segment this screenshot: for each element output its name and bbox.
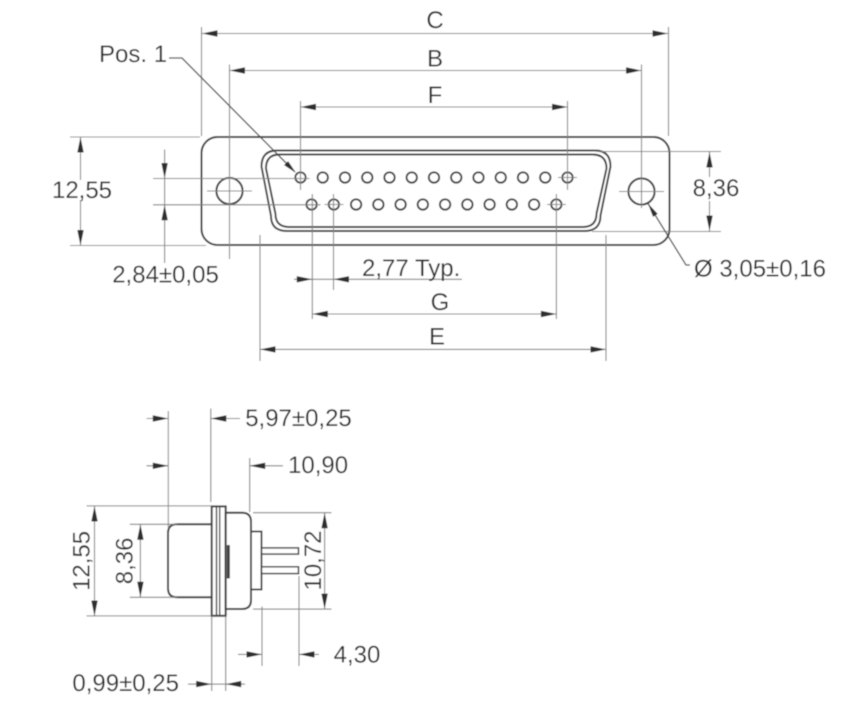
dimension 0,99 line between extensions bbox=[212, 683, 226, 685]
pin 21 bbox=[462, 199, 472, 209]
dimension 2,77 extension line right (pin 15) bbox=[333, 194, 335, 290]
pin 5 bbox=[384, 172, 394, 182]
dimension 2,84 arrow up bbox=[161, 205, 167, 221]
dimension 2,77 arrow pointing right bbox=[297, 276, 313, 282]
D-shell outer contour bbox=[262, 151, 611, 232]
svg-text:10,72: 10,72 bbox=[300, 530, 327, 590]
mounting hole left horizontal centerline bbox=[207, 190, 252, 192]
svg-text:0,99±0,25: 0,99±0,25 bbox=[72, 670, 179, 697]
dimension 8,36 extension line top (side view) bbox=[130, 523, 177, 525]
contact pin upper bbox=[262, 548, 299, 554]
pin 10 bbox=[496, 172, 506, 182]
dimension 12,55 line (side view) bbox=[94, 506, 96, 616]
dimension 8,36 line upper segment bbox=[709, 152, 711, 177]
dimension 12,55 line upper segment bbox=[80, 137, 82, 180]
mounting hole left bbox=[216, 178, 242, 204]
svg-text:10,90: 10,90 bbox=[288, 452, 348, 479]
dimension 5,97 right arrow bbox=[211, 415, 227, 421]
svg-text:E: E bbox=[429, 324, 445, 351]
pin 13 bbox=[562, 172, 572, 182]
pin 12 bbox=[540, 172, 550, 182]
dimension B extension line left (through left hole) bbox=[229, 65, 231, 260]
dimension G extension line right (pin 25) bbox=[555, 194, 557, 319]
dimension 0,99 left arrow bbox=[196, 681, 212, 687]
dimension 2,84 arrow down bbox=[161, 163, 167, 179]
dimension E line bbox=[260, 348, 606, 350]
dimension 2,77 line bbox=[294, 278, 462, 280]
pin 25 bbox=[551, 199, 561, 209]
pin 13 horizontal crosshair stub bbox=[558, 177, 577, 179]
contact pin lower bbox=[262, 567, 299, 574]
dimension 0,99 right arrow tail bbox=[226, 683, 245, 685]
dimension 12,55 line lower segment bbox=[80, 200, 82, 246]
shell front part side view bbox=[168, 524, 212, 597]
dimension 0,99 left arrow tail bbox=[188, 683, 212, 685]
dimension 10,90 left arrow bbox=[153, 463, 169, 469]
dimension F extension line left (pin 1) bbox=[300, 101, 302, 190]
flange inner line 1 bbox=[216, 507, 218, 615]
svg-text:2,77 Typ.: 2,77 Typ. bbox=[362, 255, 460, 282]
pin 9 bbox=[473, 172, 483, 182]
dimension B arrow left bbox=[230, 67, 246, 73]
dimension 10,90 left arrow tail bbox=[147, 465, 169, 467]
svg-text:C: C bbox=[426, 7, 443, 34]
svg-text:G: G bbox=[431, 289, 450, 316]
flange plate side view bbox=[212, 506, 226, 615]
dimension 4,30 left arrow tail bbox=[238, 653, 262, 655]
connector flange front view bbox=[202, 137, 670, 245]
pin 14 bbox=[306, 199, 316, 209]
dimension F extension line right (pin 13) bbox=[567, 101, 569, 190]
leader arrow diameter 3,05 bbox=[648, 204, 658, 217]
pin 23 bbox=[507, 199, 517, 209]
dimension 10,72 arrow down bbox=[321, 594, 327, 610]
pin 18 bbox=[395, 199, 405, 209]
dimension 4,30 right arrow tail bbox=[299, 653, 319, 655]
dimension C line bbox=[202, 33, 668, 35]
dimension C arrow right bbox=[653, 30, 669, 36]
dimension F line bbox=[301, 106, 568, 108]
pin 22 bbox=[484, 199, 494, 209]
dimension 12,55 arrow up bbox=[77, 137, 83, 153]
dimension 12,55 arrow up (side view) bbox=[91, 506, 97, 522]
mounting hole right bbox=[628, 178, 654, 204]
dimension 10,72 extension line bottom bbox=[253, 608, 332, 610]
dimension 8,36 extension line bottom (side view) bbox=[130, 596, 177, 598]
mounting hole right horizontal centerline bbox=[619, 191, 664, 193]
dimension 10,90 right arrow tail bbox=[250, 465, 283, 467]
pin 7 bbox=[429, 172, 439, 182]
dimension 8,36 arrow up bbox=[706, 152, 712, 168]
dimension 0,99 extension line right (flange rear face extended down) bbox=[225, 616, 227, 691]
dimension 2,77 extension line left (pin 14) bbox=[311, 194, 313, 319]
pin 6 bbox=[407, 172, 417, 182]
dimension 8,36 arrow down (side view) bbox=[137, 582, 143, 598]
pin 15 horizontal crosshair stub bbox=[325, 204, 344, 206]
svg-text:12,55: 12,55 bbox=[52, 177, 112, 204]
svg-text:Pos. 1: Pos. 1 bbox=[99, 41, 167, 68]
dimension F arrow left bbox=[301, 104, 317, 110]
dimension 4,30 extension line left (pin root extended down) bbox=[261, 607, 263, 667]
pin 25 horizontal crosshair stub bbox=[547, 204, 566, 206]
svg-text:4,30: 4,30 bbox=[334, 642, 381, 669]
dimension 4,30 left arrow bbox=[247, 651, 263, 657]
pin 4 bbox=[362, 172, 372, 182]
dimension G line bbox=[312, 313, 556, 315]
leader line diameter 3,05 bbox=[648, 204, 690, 266]
dimension C arrow left bbox=[202, 30, 218, 36]
dimension 8,36 arrow up (side view) bbox=[137, 524, 143, 540]
pin 11 bbox=[518, 172, 528, 182]
dimension 12,55 arrow down (side view) bbox=[91, 601, 97, 617]
dimension 5,97 left arrow bbox=[153, 415, 169, 421]
svg-text:F: F bbox=[428, 82, 443, 109]
dimension 10,90 right arrow bbox=[250, 463, 266, 469]
pin 20 bbox=[440, 199, 450, 209]
dimension 2,77 arrow pointing left bbox=[334, 276, 350, 282]
dimension C extension line left bbox=[201, 27, 203, 136]
dimension C extension line right bbox=[668, 27, 670, 136]
dimension B extension line right (through right hole) bbox=[641, 65, 643, 209]
svg-text:B: B bbox=[427, 46, 443, 73]
dimension 10,90 extension line right (housing rear face extended up) bbox=[249, 458, 251, 512]
dimension 0,99 extension line left (flange front face extended down) bbox=[211, 616, 213, 691]
dimension E arrow left bbox=[260, 346, 276, 352]
dimension 8,36 line lower segment bbox=[709, 201, 711, 231]
svg-text:2,84±0,05: 2,84±0,05 bbox=[112, 262, 219, 289]
dimension 12,55 extension line bottom bbox=[70, 245, 206, 247]
dimension 5,97 left arrow tail bbox=[147, 418, 169, 420]
dimension 4,30 right arrow bbox=[299, 651, 315, 657]
dimension 2,84 line bbox=[164, 150, 166, 264]
dimension 8,36 extension line bottom (shell bottom edge extended) bbox=[592, 231, 721, 233]
rear housing side view bbox=[226, 513, 251, 609]
dimension 10,72 extension line top bbox=[253, 512, 332, 514]
pin 24 bbox=[529, 199, 539, 209]
dimension E extension line left (shell left extended) bbox=[259, 235, 261, 361]
pin 2 bbox=[318, 172, 328, 182]
dimension B line bbox=[230, 70, 642, 72]
dimension B arrow right bbox=[626, 67, 642, 73]
pin 17 bbox=[373, 199, 383, 209]
svg-text:12,55: 12,55 bbox=[69, 531, 96, 591]
dimension 8,36 extension line top (shell top edge extended) bbox=[600, 151, 721, 153]
pin 15 bbox=[329, 199, 339, 209]
pin 16 bbox=[351, 199, 361, 209]
svg-text:5,97±0,25: 5,97±0,25 bbox=[245, 405, 352, 432]
insulator block side view bbox=[251, 532, 262, 590]
dimension 5,97 extension line right (flange front face extended up) bbox=[210, 409, 212, 503]
dimension 12,55 arrow down bbox=[77, 230, 83, 246]
pin 1 bbox=[295, 172, 305, 182]
D-shell inner contour bbox=[266, 155, 607, 228]
pin 19 bbox=[418, 199, 428, 209]
dimension 5,97 right arrow tail bbox=[211, 418, 240, 420]
dimension F arrow right bbox=[552, 104, 568, 110]
svg-text:8,36: 8,36 bbox=[693, 175, 740, 202]
dimension 5,97 extension line left (shell front face extended up) bbox=[167, 411, 169, 528]
dimension 2,84 extension line lower (pin row 2) bbox=[153, 204, 321, 206]
dimension 4,30 extension line right (pin tip extended down) bbox=[298, 576, 300, 666]
dimension G arrow right bbox=[541, 311, 557, 317]
dimension 8,36 line (side view) bbox=[139, 524, 141, 597]
dimension 10,72 arrow up bbox=[321, 513, 327, 529]
housing step edge bbox=[227, 545, 230, 579]
flange inner line 2 bbox=[219, 507, 221, 615]
dimension E extension line right (shell right extended) bbox=[605, 235, 607, 361]
dimension E arrow right bbox=[591, 346, 607, 352]
dimension 0,99 right arrow bbox=[226, 681, 242, 687]
dimension 8,36 arrow down bbox=[706, 216, 712, 232]
dimension 2,84 extension line upper (pin row 1) bbox=[153, 178, 310, 180]
pin 8 bbox=[451, 172, 461, 182]
dimension G arrow left bbox=[312, 311, 328, 317]
dimension 12,55 extension line bottom (side view) bbox=[87, 615, 212, 617]
dimension 10,72 line bbox=[324, 513, 326, 609]
dimension 12,55 extension line top bbox=[70, 136, 200, 138]
pin 3 bbox=[340, 172, 350, 182]
leader arrow Pos. 1 bbox=[284, 161, 296, 173]
svg-text:8,36: 8,36 bbox=[112, 538, 139, 585]
dimension 12,55 extension line top (side view) bbox=[87, 505, 212, 507]
leader line Pos. 1 to pin 1 bbox=[169, 58, 295, 172]
svg-text:Ø 3,05±0,16: Ø 3,05±0,16 bbox=[694, 256, 826, 283]
